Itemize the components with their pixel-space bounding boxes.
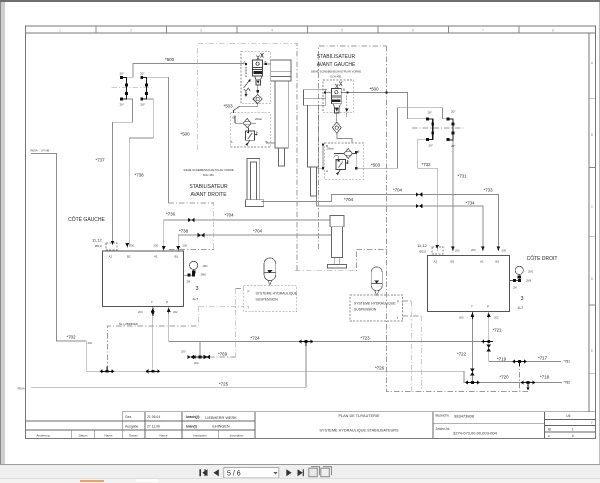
dash-dot group front-right separator <box>319 46 387 249</box>
accumulator 1 <box>264 258 276 281</box>
svg-text:*725: *725 <box>219 382 229 387</box>
svg-text:Gez.: Gez. <box>125 415 132 419</box>
svg-text:A1: A1 <box>480 260 484 264</box>
svg-text:*704: *704 <box>225 213 235 218</box>
svg-text:*704: *704 <box>253 229 263 234</box>
svg-text:200: 200 <box>88 341 93 345</box>
wire *719 *717 right block P-port <box>489 311 561 361</box>
fitting chain L1 <box>122 77 127 99</box>
frame column ticks <box>96 26 596 374</box>
svg-text:T: T <box>248 306 250 310</box>
svg-text:P: P <box>487 305 489 309</box>
wire riser at 306 to bus B <box>305 342 307 388</box>
svg-text:*722: *722 <box>457 352 467 357</box>
svg-text:200: 200 <box>130 244 135 248</box>
wire *724 *723 main line <box>169 341 489 343</box>
svg-text:3274-073,00,00,003-004: 3274-073,00,00,003-004 <box>453 431 498 436</box>
dash-dot main vertical boundary <box>387 46 531 392</box>
svg-text:AVANT DROITE: AVANT DROITE <box>190 192 227 198</box>
dash-dot lubrifier line <box>108 306 199 371</box>
valve block left <box>102 251 183 306</box>
svg-text:200: 200 <box>194 361 199 365</box>
svg-text:STABILISATEUR: STABILISATEUR <box>317 54 356 60</box>
svg-text:*736: *736 <box>166 212 176 217</box>
svg-text:Iwan(t): Iwan(t) <box>186 425 197 429</box>
wire *738 block B1 to cylinder D <box>178 235 331 250</box>
wire bus A (*726/*720/*718) <box>86 371 562 382</box>
svg-text:B: B <box>233 116 235 120</box>
svg-text:20°: 20° <box>120 72 125 76</box>
svg-text:-: - <box>548 414 549 418</box>
svg-text:RESA: RESA <box>18 387 25 391</box>
valve 2 solenoid coils top <box>335 82 342 89</box>
coupling cluster left a <box>187 355 194 359</box>
valve1 hatch band <box>253 71 261 74</box>
svg-text:200: 200 <box>183 244 188 248</box>
dash-dot box group front-left <box>197 43 297 270</box>
dashed box valve2 <box>323 80 354 112</box>
svg-text:*734: *734 <box>466 201 476 206</box>
coupling on *736 <box>188 218 195 222</box>
svg-text:Änderung: Änderung <box>36 434 49 438</box>
svg-text:T: T <box>151 300 153 304</box>
svg-text:SUSPENSION: SUSPENSION <box>354 308 377 312</box>
svg-text:SCH 450.: SCH 450. <box>330 75 342 79</box>
port arrow stems <box>153 308 489 320</box>
chain L2 joints <box>140 76 143 79</box>
funnel arrow <box>256 80 260 83</box>
gauge M left <box>190 261 198 269</box>
svg-text:20°: 20° <box>429 144 434 148</box>
small angle labels <box>120 72 457 149</box>
svg-text:*704: *704 <box>393 188 403 193</box>
svg-text:3: 3 <box>196 286 199 292</box>
svg-text:*503: *503 <box>224 104 234 109</box>
svg-text:SYSTEME HYDRAULIQUE: SYSTEME HYDRAULIQUE <box>354 302 396 306</box>
wire *702 RESA feed <box>31 154 86 372</box>
arrow fittings 11 12 <box>111 241 115 245</box>
svg-text:Ø2,0: Ø2,0 <box>95 244 102 248</box>
valve 1 funnel <box>255 76 262 80</box>
svg-text:F: F <box>591 421 594 425</box>
svg-text:P: P <box>248 290 250 294</box>
svg-text:*724: *724 <box>251 336 261 341</box>
svg-text:B: B <box>591 133 594 137</box>
dashed fitting 11,12 right <box>432 247 443 254</box>
svg-text:*731: *731 <box>458 174 468 179</box>
svg-text:2: 2 <box>130 29 132 33</box>
valve 2 cartridge body <box>331 88 341 103</box>
svg-text:11,12: 11,12 <box>417 243 427 248</box>
svg-text:*732: *732 <box>422 162 432 167</box>
dashed fitting 11,12 left <box>106 243 117 250</box>
wire *500 chain L1 top to valve1 <box>127 64 245 78</box>
svg-text:200: 200 <box>455 249 460 253</box>
dash-dot *719 tee drop <box>519 362 521 392</box>
wire *500 valve2 to chain R1 <box>341 93 427 119</box>
svg-text:*500: *500 <box>165 57 175 62</box>
svg-text:SUSPENSION: SUSPENSION <box>256 298 279 302</box>
dash-dot cylinder D box <box>295 250 356 271</box>
svg-text:A2: A2 <box>109 255 113 259</box>
svg-text:SYSTEME HYDRAULIQUE STABILISAT: SYSTEME HYDRAULIQUE STABILISATEURS <box>319 429 399 433</box>
valve 2 pilot drop right <box>346 96 348 109</box>
svg-text:B: B <box>343 88 345 92</box>
check valve 1 <box>253 94 262 103</box>
svg-text:4-7: 4-7 <box>193 297 200 302</box>
svg-text:20°: 20° <box>451 110 456 114</box>
svg-text:1: 1 <box>59 29 61 33</box>
svg-text:*737: *737 <box>96 158 106 163</box>
svg-text:5 / 6: 5 / 6 <box>227 471 241 478</box>
svg-text:*500: *500 <box>181 132 191 137</box>
svg-text:A: A <box>244 60 246 64</box>
svg-text:200: 200 <box>459 316 464 320</box>
svg-text:A: A <box>326 169 328 173</box>
svg-text:D: D <box>591 277 594 281</box>
svg-text:SIEHE SCHEIBENSCHALTPLAN VORNE: SIEHE SCHEIBENSCHALTPLAN VORNE <box>311 70 361 74</box>
tee arrowheads <box>100 369 103 373</box>
svg-text:2M1: 2M1 <box>203 264 209 268</box>
svg-text:200: 200 <box>471 248 476 252</box>
fitting chain L2 <box>142 77 147 99</box>
svg-text:PLAN DE TUYAUTERIE: PLAN DE TUYAUTERIE <box>338 414 379 418</box>
svg-text:*733: *733 <box>484 188 494 193</box>
svg-text:1/6: 1/6 <box>566 414 571 418</box>
svg-text:A: A <box>231 140 233 144</box>
relief valve 2b <box>336 159 346 169</box>
svg-text:NL LUBRIFIER: NL LUBRIFIER <box>119 322 138 326</box>
svg-text:*738: *738 <box>179 229 189 234</box>
svg-text:Inscription: Inscription <box>193 434 207 438</box>
svg-text:Inscription: Inscription <box>230 434 244 438</box>
valve2 hatch band <box>332 100 341 103</box>
dash-dot to suspension box 1 <box>198 289 243 358</box>
svg-text:*717: *717 <box>538 356 548 361</box>
wire *503 reducer2 B-port riser to chain R2 <box>356 108 448 169</box>
tee at cluster <box>196 356 205 358</box>
gauge fittings <box>192 271 195 274</box>
svg-text:Ausgabe: Ausgabe <box>125 424 138 428</box>
svg-text:*500: *500 <box>370 87 380 92</box>
wire *503 valve2 check to reducer2 <box>337 133 352 143</box>
svg-text:RESA: RESA <box>31 149 38 153</box>
svg-text:AVANT GAUCHE: AVANT GAUCHE <box>317 62 356 68</box>
svg-text:P: P <box>166 300 168 304</box>
cylinder A front-left extension <box>271 60 291 81</box>
svg-text:20°: 20° <box>141 103 146 107</box>
dash-dot axis left chains <box>111 87 151 89</box>
tee on *719 <box>515 362 524 367</box>
svg-text:*726: *726 <box>375 366 385 371</box>
svg-text:SCH 450.: SCH 450. <box>203 173 215 177</box>
dashed box suspension 2 <box>350 295 403 321</box>
svg-text:E: E <box>591 349 594 353</box>
coupling cluster left b <box>203 355 210 359</box>
arrows into right block top <box>451 247 455 251</box>
port letters <box>109 60 500 320</box>
svg-text:A: A <box>325 88 327 92</box>
wire bus B (*725) <box>31 386 306 388</box>
svg-text:21.06.04: 21.06.04 <box>147 415 160 419</box>
chain R2 joints <box>446 117 449 120</box>
svg-text:C: C <box>591 205 594 209</box>
svg-text:*769: *769 <box>218 352 228 357</box>
filter diamond 2 <box>344 149 352 159</box>
valve block right <box>427 256 509 312</box>
cylinder D front-right jack <box>330 216 344 227</box>
svg-text:*720: *720 <box>500 375 510 380</box>
svg-text:B: B <box>266 140 268 144</box>
svg-text:LIEBHERR WERK: LIEBHERR WERK <box>205 416 237 420</box>
svg-text:20°: 20° <box>428 111 433 115</box>
wire cylinder A rod link <box>266 142 275 144</box>
wire *737 chain L1 to block A2 <box>113 99 133 244</box>
wire chain L2 top riser <box>147 77 169 203</box>
wire *704 *734 cylinder C to right block A1 <box>317 196 483 251</box>
svg-text:Iwach(ji): Iwach(ji) <box>186 415 200 419</box>
check valve 2 <box>332 122 341 133</box>
relief valve 1b <box>246 131 255 140</box>
wire *736 block A1 to cylinder D <box>164 220 330 251</box>
svg-text:6: 6 <box>412 29 414 33</box>
svg-text:Datum: Datum <box>129 434 138 438</box>
tee at right T vertical on bus <box>468 382 477 384</box>
svg-text:2M8: 2M8 <box>201 273 207 277</box>
svg-text:T: T <box>471 305 473 309</box>
wire left block T-port down <box>152 306 154 371</box>
svg-text:983473808: 983473808 <box>454 414 475 419</box>
svg-text:B2: B2 <box>127 255 131 259</box>
valve 2 funnel <box>333 104 340 108</box>
arrows into left block top <box>126 243 130 247</box>
dashed box suspension 1 <box>244 286 297 312</box>
wire *704 *733 cylinder B to right block B1 <box>262 195 499 251</box>
wire *738 chain L2 to block B2 <box>129 99 153 247</box>
accumulator 2 <box>371 267 382 291</box>
coupling on right T-port drop <box>470 369 474 376</box>
svg-text:B1: B1 <box>496 260 500 264</box>
svg-text:202: 202 <box>173 310 178 314</box>
svg-text:2M8: 2M8 <box>526 279 532 283</box>
coupling on *704 lower <box>416 204 423 208</box>
fitting labels <box>92 238 524 311</box>
coupling on *738 lower <box>198 233 205 237</box>
tee at right P vertical <box>484 341 493 343</box>
svg-text:*738: *738 <box>135 173 145 178</box>
svg-text:7: 7 <box>482 29 484 33</box>
dashed box reducer2 <box>324 143 363 179</box>
dashed box reducer1 <box>231 113 271 147</box>
svg-text:200: 200 <box>181 350 186 354</box>
cylinder B front-left jack <box>247 159 260 200</box>
tee on bus A at 107 <box>103 367 112 372</box>
svg-text:20°: 20° <box>120 103 125 107</box>
hose number labels <box>67 57 571 387</box>
svg-text:Datum: Datum <box>79 434 88 438</box>
wire left block P-port down <box>168 306 170 341</box>
dashed box valve1 <box>241 51 271 103</box>
svg-text:SIEHE SCHEIBENSCHALTPLAN VORNE: SIEHE SCHEIBENSCHALTPLAN VORNE <box>183 168 233 172</box>
tee on *718 <box>524 383 533 388</box>
coupling on *704 upper <box>416 192 423 196</box>
svg-text:4-7: 4-7 <box>518 305 525 310</box>
wire cluster drop <box>188 342 209 358</box>
svg-text:*704: *704 <box>344 197 354 202</box>
svg-text:0-T-HB: 0-T-HB <box>41 149 49 153</box>
svg-text:Name: Name <box>159 434 167 438</box>
wire valve2 to cylinder C <box>326 92 332 94</box>
junction dot boundary crossing <box>385 91 387 93</box>
svg-text:1: 1 <box>572 428 574 432</box>
wire right block T-port down <box>471 311 473 382</box>
dash-dot axis right chains <box>412 127 465 129</box>
chain R1 joints <box>426 117 429 120</box>
svg-text:8: 8 <box>552 29 554 33</box>
svg-text:Ø2,0: Ø2,0 <box>420 250 427 254</box>
svg-text:20bar: 20bar <box>255 117 262 121</box>
svg-text:EHINGEN: EHINGEN <box>212 425 230 429</box>
svg-text:P: P <box>397 300 399 304</box>
svg-text:20°: 20° <box>140 72 145 76</box>
svg-text:*718: *718 <box>540 375 550 380</box>
svg-text:B1: B1 <box>175 255 179 259</box>
arrows into right block bottom <box>471 313 475 317</box>
wire reducer1 outlet to cylinder C rod <box>317 144 325 168</box>
svg-text:20°: 20° <box>451 144 456 148</box>
edge reference labels <box>18 149 50 391</box>
dash-dot bottom boundary segments <box>169 249 387 251</box>
svg-text:200: 200 <box>138 310 143 314</box>
svg-text:202: 202 <box>494 316 499 320</box>
svg-text:Name: Name <box>104 434 112 438</box>
dash-dot small box near avant droite <box>168 203 213 250</box>
svg-text:2M: 2M <box>187 280 191 284</box>
svg-text:4: 4 <box>271 29 273 33</box>
svg-text:SYSTEME HYDRAULIQUE: SYSTEME HYDRAULIQUE <box>256 292 298 296</box>
tee on main line at 306 <box>302 342 311 347</box>
svg-text:A2: A2 <box>434 260 438 264</box>
svg-text:27.11.06: 27.11.06 <box>147 425 160 429</box>
coupling on right P-port drop <box>487 345 491 352</box>
svg-text:200: 200 <box>502 249 507 253</box>
svg-text:11,12: 11,12 <box>92 238 102 243</box>
svg-text:B: B <box>358 150 360 154</box>
dash-dot suspension box 2 links <box>403 301 422 392</box>
cylinder C front-right extension <box>303 90 325 105</box>
svg-text:Bl.: Bl. <box>548 428 552 432</box>
svg-text:*781: *781 <box>564 360 571 364</box>
svg-text:A1: A1 <box>154 255 158 259</box>
svg-text:*503: *503 <box>371 163 381 168</box>
valve 1 cartridge body <box>253 60 263 76</box>
svg-text:*719: *719 <box>497 357 507 362</box>
relief valve 1a <box>244 81 251 92</box>
svg-text:2M: 2M <box>513 286 517 290</box>
svg-text:6: 6 <box>572 434 574 438</box>
svg-text:Bezeichn.: Bezeichn. <box>436 414 450 418</box>
svg-text:*702: *702 <box>67 335 77 340</box>
svg-text:*723: *723 <box>361 336 371 341</box>
accumulator pistons <box>267 270 272 273</box>
svg-text:A: A <box>591 61 594 65</box>
gauge M right <box>515 266 523 274</box>
filter diamond 1 <box>243 119 251 128</box>
svg-text:CÔTÉ GAUCHE: CÔTÉ GAUCHE <box>68 216 105 223</box>
valve 1 solenoid coils top <box>257 53 264 60</box>
svg-text:*782: *782 <box>564 381 571 385</box>
wire valve1 to cylinder A <box>264 63 271 65</box>
svg-text:20bar: 20bar <box>327 147 334 151</box>
chain L1 joints <box>120 76 123 79</box>
svg-text:B2: B2 <box>451 260 455 264</box>
arrows into left block bottom <box>151 308 155 317</box>
fitting chain R1 <box>427 119 433 140</box>
tiny 200 labels <box>88 244 534 366</box>
svg-text:*721: *721 <box>493 328 503 333</box>
svg-text:T: T <box>397 316 399 320</box>
wire *731 chain R2 bottom to block B2 <box>452 140 454 251</box>
svg-text:3: 3 <box>521 296 524 302</box>
junction dots valve1 line <box>245 63 247 65</box>
fitting chain R2 <box>448 119 453 140</box>
valve 1 pilot dashed <box>245 64 247 79</box>
svg-text:STABILISATEUR: STABILISATEUR <box>189 184 228 190</box>
title block <box>26 412 596 439</box>
svg-text:Zeichn-Nr.: Zeichn-Nr. <box>436 427 451 431</box>
svg-text:CÔTE DROIT: CÔTE DROIT <box>527 255 558 262</box>
svg-text:v.: v. <box>548 434 550 438</box>
svg-text:5: 5 <box>341 29 343 33</box>
svg-text:3: 3 <box>200 29 202 33</box>
svg-text:B: B <box>265 60 267 64</box>
tee on bus A at 153 <box>148 370 157 372</box>
wire *732 chain R1 bottom to block A2 <box>418 139 437 251</box>
svg-text:2M1: 2M1 <box>528 270 534 274</box>
svg-text:200: 200 <box>154 244 159 248</box>
